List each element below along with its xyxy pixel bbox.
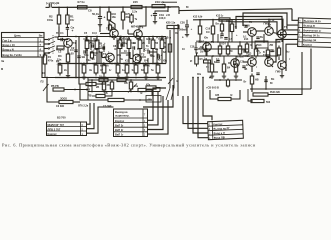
wire route 4 — [229, 22, 298, 35]
svg-text:ВхЛ 1г: ВхЛ 1г — [115, 133, 124, 137]
wire ra t6 em — [271, 65, 273, 67]
svg-text:Вход с N: Вход с N — [3, 47, 14, 51]
wire vert v1 — [75, 40, 77, 78]
wire amp vert 3 — [132, 50, 134, 64]
wire C18 v — [195, 42, 197, 48]
junction rail f — [145, 6, 147, 8]
svg-text:+: + — [104, 16, 106, 20]
svg-text:Вход с 10: Вход с 10 — [3, 43, 16, 47]
switch P2 arm — [43, 84, 49, 91]
wire lm drop — [79, 78, 86, 85]
wire C11 link — [150, 49, 157, 53]
wire amp vert 0 — [90, 37, 92, 51]
wire T9 emit — [113, 38, 115, 41]
wire R10 down — [108, 20, 110, 29]
capacitor C11 — [148, 50, 150, 53]
wire T3 emit — [136, 63, 138, 64]
wire R5 gnd — [59, 73, 61, 76]
wire R39 t — [219, 42, 221, 46]
resistor R29 — [96, 94, 105, 97]
junction ra3 — [242, 19, 244, 21]
wire C17 d — [205, 52, 207, 56]
wire ra drop3 — [231, 20, 233, 25]
junction lm v92 — [91, 79, 93, 81]
resistor R45 — [253, 93, 268, 96]
wire ra drop1 — [199, 20, 201, 26]
wire R36 d — [211, 72, 213, 75]
wire tex3 — [103, 44, 105, 52]
wire R29 out — [105, 92, 112, 97]
junction top bus t7 — [152, 36, 154, 38]
resistor R23 — [108, 98, 124, 101]
capacitor C18b — [216, 61, 219, 63]
junction mid2 b — [239, 55, 241, 57]
capacitor C17 — [204, 50, 207, 52]
wire R70 down — [122, 20, 124, 30]
wire riser 3 — [148, 96, 164, 130]
wire T4 base v — [127, 30, 129, 35]
svg-text:Вы: Вы — [286, 51, 290, 54]
ground C8 — [98, 23, 102, 27]
svg-text:Корпус: Корпус — [48, 132, 58, 136]
svg-text:Выход на РГ: Выход на РГ — [213, 126, 230, 131]
wire pair b — [116, 40, 118, 64]
wire ra t8-t10 — [256, 30, 265, 32]
junction link b — [128, 52, 130, 54]
wire R16 top — [135, 64, 137, 66]
wire t6 coll — [268, 56, 270, 58]
svg-text:ЗООО: ЗООО — [60, 98, 67, 101]
capacitor C5 — [103, 46, 105, 49]
svg-text:+: + — [126, 42, 128, 46]
wire amp vert 2 — [123, 37, 125, 48]
resistor R15b — [130, 13, 133, 24]
resistor R12 — [127, 38, 131, 52]
resistor R20b — [167, 25, 179, 28]
resistor R17 — [151, 38, 155, 52]
wire t10 coll — [268, 19, 270, 27]
junction lm b2 — [130, 91, 132, 93]
wire R12 down — [128, 49, 130, 64]
wire C19 v — [155, 11, 168, 14]
wire lm bus b — [88, 91, 160, 93]
svg-text:4п: 4п — [146, 38, 149, 41]
wire switch common — [55, 37, 60, 40]
junction v203 — [202, 77, 204, 79]
junction mid3 b — [227, 48, 229, 50]
resistor R40 — [226, 44, 229, 57]
svg-text:К7 0х: К7 0х — [78, 0, 86, 4]
capacitor C9 — [121, 43, 123, 46]
resistor R6 — [82, 63, 86, 76]
junction x9 — [91, 91, 93, 93]
capacitor C19 — [153, 14, 157, 16]
svg-text:+: + — [151, 14, 153, 18]
wire R21 top — [157, 64, 159, 66]
svg-text:С9: С9 — [117, 41, 121, 45]
wire inter v2 — [173, 26, 175, 88]
svg-text:С11: С11 — [145, 48, 150, 52]
connector table bottom left — [47, 122, 87, 136]
svg-text:С6: С6 — [83, 37, 87, 41]
wire T2 base — [102, 57, 106, 59]
wire drop C8 — [99, 7, 101, 16]
resistor R70 — [121, 10, 124, 23]
junction rl2 — [251, 100, 253, 102]
wire ra t5 base — [243, 61, 248, 63]
resistor R43 — [266, 48, 269, 60]
resistor R34 — [245, 42, 248, 55]
wire C19 down — [154, 16, 156, 21]
wire input 3 — [44, 48, 48, 50]
wire link c — [104, 56, 108, 58]
capacitor C2 — [74, 50, 77, 52]
capacitor C18 — [194, 48, 197, 50]
svg-text:Вг: Вг — [186, 6, 189, 9]
ground g4 — [144, 76, 148, 80]
wire T4 base — [128, 33, 134, 35]
svg-text:К14: К14 — [136, 37, 141, 41]
svg-text:Вход ПВ: Вход ПВ — [214, 135, 225, 139]
wire R38 t — [235, 56, 237, 64]
wire T9 base — [100, 33, 110, 35]
junction x8 — [130, 79, 132, 81]
junction bot 4 — [135, 77, 137, 79]
wire ra t8 base — [243, 31, 248, 33]
wire r47 right — [231, 90, 240, 99]
capacitor C12 — [158, 55, 160, 58]
svg-text:ВхП 2г: ВхП 2г — [115, 128, 124, 132]
wire amp vert 6 — [148, 37, 150, 45]
svg-text:435: 435 — [215, 94, 220, 97]
svg-text:100,0: 100,0 — [159, 16, 166, 20]
svg-text:К15: К15 — [125, 59, 130, 63]
transistor T5 — [248, 58, 257, 67]
resistor R48 — [138, 88, 146, 91]
capacitor C22 — [256, 73, 259, 75]
wire top tick — [163, 1, 177, 3]
svg-text:К17: К17 — [149, 37, 154, 41]
svg-text:З: З — [40, 53, 42, 57]
wire down 3 — [193, 78, 208, 134]
svg-text:Вывод В: Вывод В — [303, 24, 315, 28]
svg-text:1г: 1г — [246, 64, 248, 67]
wire tex1 — [120, 37, 122, 41]
wire t11 emit — [281, 69, 283, 74]
svg-text:ВЗ: ВЗ — [95, 47, 99, 51]
resistor R11b — [94, 63, 98, 76]
svg-text:20г: 20г — [200, 51, 204, 54]
wire R14 top — [139, 37, 141, 41]
wire R31 down — [199, 34, 201, 42]
wire t5 emit — [251, 66, 253, 72]
wire lm h1 — [96, 83, 106, 85]
svg-text:Т3: Т3 — [141, 53, 145, 57]
wire T3 base v — [129, 52, 131, 59]
resistor R50 — [277, 46, 280, 58]
wire R11b top — [95, 64, 97, 66]
wire T6b base — [200, 46, 203, 48]
wire inter v1 — [169, 30, 171, 88]
wire R15b gnd — [126, 73, 128, 76]
svg-text:Рис. 6. Принципиальная схема м: Рис. 6. Принципиальная схема магнитофона… — [2, 143, 256, 148]
junction ra1 — [199, 19, 201, 21]
wire route 3 — [236, 17, 298, 30]
wire rail drop record amp — [178, 7, 180, 14]
wire t7 emit — [281, 38, 283, 42]
resistor R35 — [230, 22, 233, 35]
wire T3 base — [130, 58, 133, 60]
svg-text:С3 390: С3 390 — [56, 105, 65, 108]
transistor T7b — [231, 59, 240, 68]
resistor R41 — [238, 44, 241, 57]
wire rm v — [251, 84, 253, 92]
resistor R38 — [234, 62, 237, 75]
resistor R11 — [118, 38, 122, 52]
junction rail e — [122, 6, 124, 8]
wire R20 top — [145, 64, 147, 66]
svg-text:1м: 1м — [204, 58, 207, 61]
junction lme — [46, 77, 48, 79]
svg-text:ВхЛ 2г: ВхЛ 2г — [115, 123, 124, 127]
svg-text:Кл: Кл — [268, 24, 272, 27]
svg-text:150к: 150к — [47, 18, 54, 22]
paper background — [0, 0, 331, 150]
wire down 5 — [203, 78, 212, 121]
svg-text:ЗВ: ЗВ — [82, 55, 86, 59]
ground ra3 — [210, 75, 214, 79]
svg-text:МНЛ2 ИГ 707: МНЛ2 ИГ 707 — [48, 123, 65, 127]
wire ra v232 — [231, 32, 233, 43]
junction link a — [96, 52, 98, 54]
wire R9 top — [96, 37, 98, 41]
resistor R21 — [156, 63, 160, 76]
junction mid2 a — [212, 55, 214, 57]
junction lme h — [74, 89, 76, 91]
wire R27 top — [130, 80, 132, 82]
capacitor C13 — [92, 44, 94, 47]
transistor T11 — [278, 61, 287, 70]
resistor R52 — [204, 60, 211, 63]
switch P1 contacts — [48, 37, 55, 54]
junction mid1 a — [199, 41, 201, 43]
wire rm long — [250, 88, 311, 90]
wire lme h2 — [73, 101, 80, 103]
resistor R18 — [160, 38, 164, 52]
resistor R16 — [134, 63, 138, 76]
svg-text:С2: С2 — [58, 50, 62, 54]
wire supply rail + — [52, 6, 179, 9]
connector table bottom center — [114, 109, 148, 137]
svg-text:МП16Л: МП16Л — [196, 41, 204, 44]
junction mid 2 — [111, 63, 113, 65]
ground C20 — [185, 33, 189, 37]
wire route 1 — [292, 9, 298, 20]
svg-text:РН4: РН4 — [257, 44, 262, 47]
wire R1 down — [66, 27, 68, 28]
wire R2 down — [58, 27, 60, 37]
wire T4 coll — [139, 7, 146, 30]
wire T1 collector — [59, 38, 68, 40]
wire C5 link — [97, 47, 103, 50]
resistor R3 — [66, 52, 69, 65]
wire rm v2 — [248, 89, 251, 101]
junction x10 — [251, 55, 253, 57]
wire tex4 — [146, 90, 152, 96]
transistor T1 — [64, 39, 73, 48]
svg-text:ВВ: ВВ — [104, 92, 108, 95]
junction rail c — [99, 6, 101, 8]
svg-text:Лг: Лг — [175, 32, 178, 35]
svg-text:ДЗ: ДЗ — [248, 53, 252, 56]
junction x7 — [239, 41, 241, 43]
junction rm v — [251, 88, 253, 90]
junction mid1 b — [251, 41, 253, 43]
svg-text:Корпус: Корпус — [303, 43, 313, 47]
svg-text:ЛВ: ЛВ — [270, 44, 274, 47]
resistor R30 — [168, 42, 171, 55]
wire T1 emitter — [67, 47, 69, 54]
resistor R20 — [144, 63, 148, 76]
svg-text:2В: 2В — [96, 86, 99, 89]
resistor R51 — [195, 54, 198, 67]
junction rail b — [67, 6, 69, 8]
wire R38 d — [235, 72, 237, 75]
wire R37 d — [223, 72, 225, 75]
resistor R24 — [99, 78, 108, 81]
capacitor C23 — [224, 38, 227, 40]
rheostat RN4 box — [255, 41, 268, 48]
wire R20 gnd — [145, 73, 147, 76]
transistor T7 — [278, 30, 287, 39]
svg-text:Вч: Вч — [260, 36, 264, 39]
wire T6b emit — [206, 51, 208, 56]
resistor R10 — [107, 10, 110, 23]
wire blt riser 3 — [87, 107, 114, 133]
svg-text:0,05: 0,05 — [69, 52, 75, 56]
svg-text:П1 С1: П1 С1 — [56, 31, 64, 35]
capacitor C20 — [185, 25, 189, 27]
wire R12b top — [103, 64, 105, 66]
wire down 2 — [188, 96, 208, 128]
wire route 4a — [228, 32, 230, 42]
wire C20 top — [186, 20, 188, 25]
wire r47 loop — [210, 90, 218, 99]
ground t11 — [280, 74, 284, 78]
svg-text:С20: С20 — [180, 21, 185, 25]
junction t10 coll — [268, 18, 270, 20]
svg-text:0,5: 0,5 — [256, 50, 260, 53]
svg-text:С2: С2 — [71, 46, 75, 50]
capacitor C14 — [133, 46, 135, 49]
wire C20 down — [186, 27, 188, 33]
junction down 3 — [192, 77, 194, 79]
svg-text:МП16Л: МП16Л — [236, 56, 244, 59]
transistor T8 — [248, 28, 257, 37]
wire T9 base v — [99, 26, 101, 32]
junction lm h1 — [101, 83, 103, 85]
junction down 4 — [197, 77, 199, 79]
capacitor C7 rail input — [49, 3, 51, 7]
wire R18 down — [161, 49, 163, 64]
capacitor C4b — [84, 50, 86, 53]
svg-text:РН6 22К: РН6 22К — [270, 91, 280, 94]
wire rm up — [310, 49, 312, 90]
wire route 6 — [286, 44, 298, 71]
wire R13 top — [117, 64, 119, 66]
resistor R5b — [90, 51, 93, 60]
wire drop R70 — [122, 7, 124, 12]
svg-text:К14: К14 — [244, 38, 249, 41]
resistor R19 — [152, 5, 165, 8]
junction cb1 — [219, 79, 221, 81]
wire R17 down — [152, 49, 154, 64]
svg-text:ЛВ: ЛВ — [88, 95, 92, 98]
wire R32 down — [212, 34, 214, 42]
wire riser 2 — [148, 92, 159, 125]
junction top bus t3 — [96, 36, 98, 38]
svg-text:К12 6,8г: К12 6,8г — [193, 16, 203, 19]
wire T9 arrow — [112, 27, 115, 30]
wire R41 t — [239, 42, 241, 46]
svg-text:R3: R3 — [58, 54, 62, 58]
svg-text:К!: К! — [190, 60, 193, 63]
wire ra drop2 — [212, 20, 214, 26]
wire R36 t — [211, 56, 213, 64]
ground g3 — [125, 76, 129, 80]
resistor R39 — [218, 44, 221, 57]
wire R37 t — [223, 56, 225, 64]
wire drop R2 — [58, 7, 60, 15]
svg-text:Гол 1 в: Гол 1 в — [3, 38, 12, 42]
svg-text:+: + — [191, 27, 193, 31]
switch P1 linkage — [52, 35, 54, 54]
svg-text:0,5: 0,5 — [137, 47, 141, 51]
wire blt riser 2 — [87, 103, 95, 129]
ground C19 — [153, 20, 157, 24]
wire T7b base — [228, 62, 231, 64]
svg-text:ЗВ: ЗВ — [244, 68, 247, 71]
wire ra drop5 — [221, 20, 223, 25]
wire riser 1 — [148, 88, 167, 120]
svg-text:1К: 1К — [99, 76, 102, 79]
svg-text:Вг: Вг — [270, 82, 273, 85]
svg-text:Тб: Тб — [211, 41, 215, 44]
wire R40 t — [227, 42, 229, 46]
svg-text:Выход на: Выход на — [115, 110, 128, 114]
ground g1 — [82, 76, 86, 80]
capacitor C6 — [66, 28, 69, 30]
transistor T2 — [106, 53, 115, 62]
resistor R25 — [117, 78, 126, 81]
resistor R44 — [250, 74, 253, 87]
wire ra v218 — [217, 34, 219, 42]
wire R5 top — [59, 64, 61, 66]
svg-text:Корпус: Корпус — [115, 119, 125, 123]
wire R50 d — [278, 58, 280, 61]
resistor R12b — [102, 63, 106, 76]
wire C1 to T1 — [63, 39, 68, 41]
connector table bottom right — [208, 120, 244, 140]
junction rl — [265, 88, 267, 90]
wire R21 gnd — [157, 73, 159, 76]
resistor R13 — [116, 63, 120, 76]
resistor R7 — [78, 6, 88, 9]
junction cb2 — [235, 79, 237, 81]
junction ra2 — [212, 19, 214, 21]
resistor R1b — [43, 53, 46, 67]
resistor R4b — [86, 37, 97, 41]
